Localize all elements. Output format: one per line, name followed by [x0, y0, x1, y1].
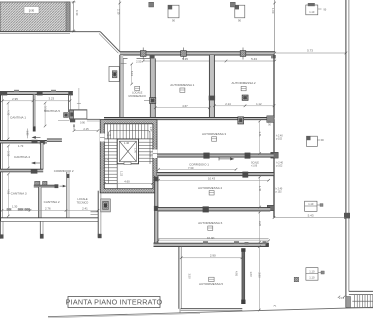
- svg-text:0.30: 0.30: [75, 10, 79, 16]
- svg-text:1.22: 1.22: [119, 171, 123, 177]
- svg-text:+1.06: +1.06: [251, 164, 258, 167]
- stair walk line: [109, 131, 151, 185]
- wall stubs below cantina block: [0, 221, 44, 238]
- tick where sloped line meets wall: [274, 305, 277, 308]
- svg-text:2.30: 2.30: [7, 151, 11, 157]
- svg-text:1.10: 1.10: [309, 269, 315, 273]
- dimension line 5.43 lower right: [274, 217, 346, 219]
- dimension line to right wall with 5.73: [275, 52, 346, 54]
- svg-text:2.14: 2.14: [225, 102, 231, 106]
- corner block right end of garages bottom wall: [267, 116, 274, 123]
- line closet to stair: [87, 118, 100, 120]
- svg-text:MONDEZZAIO: MONDEZZAIO: [129, 94, 146, 98]
- small filled square top x=149: [149, 2, 154, 7]
- svg-text:CANTINA 3: CANTINA 3: [11, 192, 27, 196]
- svg-text:10.43: 10.43: [208, 177, 215, 181]
- hatched wall block top-left: [0, 2, 70, 32]
- dim chain x=259.7: [259, 121, 261, 242]
- dim 2.95 / 3.23 under top wall: [2, 100, 70, 102]
- svg-text:AUTORIMESSA 3: AUTORIMESSA 3: [202, 132, 226, 136]
- inner right wall of building: [273, 55, 275, 218]
- corridor2 lower wall: [34, 184, 59, 188]
- room label LOCALE MONDEZZAIO: [129, 86, 146, 98]
- pilaster on mondezzaio wall: [144, 97, 156, 103]
- shaft symbol top A: [168, 5, 179, 22]
- svg-text:1.30: 1.30: [12, 205, 18, 209]
- room label AUTORIMESSA 2: [231, 81, 255, 91]
- pilaster with concentric squares below stair: [101, 199, 111, 212]
- diagonal wall: [100, 32, 120, 52]
- left vertical dims: [7, 103, 9, 139]
- aut5 left wall: [179, 247, 181, 313]
- svg-text:AUTORIMESSA 6: AUTORIMESSA 6: [198, 221, 222, 225]
- svg-text:1.80: 1.80: [26, 131, 29, 136]
- svg-text:1.00: 1.00: [134, 148, 138, 154]
- shaft symbol top B: [235, 5, 245, 22]
- svg-text:1.40: 1.40: [258, 186, 262, 192]
- wall C aut4/aut6: [158, 206, 270, 212]
- svg-text:1.00: 1.00: [249, 272, 253, 278]
- svg-text:2.10: 2.10: [116, 9, 120, 15]
- svg-text:CORRIDOIO 2: CORRIDOIO 2: [54, 169, 74, 173]
- cantina block top wall: [0, 90, 73, 96]
- dark blob below closet: [70, 119, 75, 122]
- svg-text:4.30: 4.30: [6, 110, 10, 116]
- right outer wall: [345, 0, 347, 308]
- svg-text:LOCALE: LOCALE: [77, 197, 88, 201]
- svg-text:CANTINA 5: CANTINA 5: [44, 109, 60, 113]
- small filled square top x=230: [230, 2, 235, 7]
- garage left wall vertical: [120, 55, 123, 120]
- corridor2 door piers: [35, 181, 40, 186]
- svg-text:10.00: 10.00: [207, 236, 215, 240]
- door pier top wall locale mondezzaio: [150, 55, 155, 59]
- vertical dim above closet: [78, 88, 80, 110]
- stair left flight treads: [104, 139, 117, 189]
- vent symbol right-mid 1: [307, 136, 325, 146]
- svg-text:3.20: 3.20: [258, 221, 262, 227]
- dim line bottom with marks: [2, 205, 98, 211]
- svg-text:1.25: 1.25: [149, 127, 153, 133]
- svg-text:7.30: 7.30: [188, 166, 194, 170]
- svg-text:1.10: 1.10: [308, 202, 314, 206]
- stair right flight treads: [139, 142, 153, 161]
- title box: [66, 297, 163, 308]
- elevator shaft: [117, 139, 138, 165]
- vent symbol top-right: [306, 3, 327, 15]
- svg-text:4.15: 4.15: [149, 152, 152, 157]
- main top wall of garages: [120, 52, 276, 59]
- svg-text:0.30: 0.30: [267, 121, 270, 126]
- svg-text:0.90: 0.90: [80, 121, 85, 124]
- svg-text:5.43: 5.43: [308, 213, 314, 217]
- cantina block bottom lines: [0, 217, 98, 219]
- wall line under hatched block: [0, 31, 100, 33]
- svg-text:2.15: 2.15: [83, 127, 89, 131]
- bottom right external stair: [339, 291, 373, 308]
- svg-text:5.73: 5.73: [307, 48, 313, 52]
- svg-text:5.35: 5.35: [182, 57, 188, 61]
- svg-text:p 102: p 102: [276, 190, 283, 193]
- svg-text:AUTORIMESSA 4: AUTORIMESSA 4: [198, 186, 222, 190]
- svg-text:p 102: p 102: [276, 164, 283, 167]
- wall cantina3/cantina2: [39, 187, 42, 218]
- vent symbol bottom-right: [306, 268, 324, 281]
- door pier right wall: [64, 113, 69, 118]
- garages bottom wall: [104, 118, 275, 120]
- svg-text:5.15: 5.15: [130, 71, 134, 77]
- boundary line from top edge at x=119.8: [119, 0, 121, 52]
- svg-text:1.40: 1.40: [124, 141, 130, 145]
- dim vertical line x=259.3: [258, 247, 260, 311]
- pilaster symbol left of garage wall: [109, 63, 127, 81]
- dim 10.43: [159, 179, 269, 181]
- dim 10.00: [158, 240, 269, 242]
- wall under cantina4: [0, 169, 43, 173]
- column marker on top wall x=243: [240, 48, 246, 60]
- door arrow corridor: [219, 157, 234, 160]
- svg-text:AUTORIMESSA 1: AUTORIMESSA 1: [170, 83, 194, 87]
- small hatched square bottom-right: [294, 277, 298, 281]
- wall cantina1/cantina5: [33, 95, 36, 132]
- svg-text:1.73: 1.73: [18, 144, 24, 148]
- aut5 bottom wall: [181, 309, 243, 311]
- svg-text:1.12: 1.12: [256, 102, 262, 106]
- svg-text:4.55: 4.55: [7, 189, 11, 195]
- room label AUTORIMESSA 4: [198, 186, 222, 195]
- arrow right of corridor2 wall: [60, 185, 66, 187]
- room label AUTORIMESSA 6: [198, 221, 222, 230]
- corridor wall B: [157, 172, 274, 178]
- garage wall between aut1 and aut2: [209, 55, 215, 120]
- svg-text:2.90: 2.90: [210, 254, 216, 258]
- wall left of stair going down: [98, 191, 102, 239]
- wall locale tecnico left: [66, 172, 69, 218]
- svg-text:4.60: 4.60: [124, 179, 130, 183]
- svg-text:1.00: 1.00: [271, 8, 275, 14]
- svg-text:4.67: 4.67: [182, 104, 188, 108]
- svg-text:2.50: 2.50: [136, 60, 142, 64]
- aut5 right thick wall: [241, 248, 245, 304]
- svg-text:p 102: p 102: [276, 137, 283, 140]
- svg-text:AUTORIMESSA 2: AUTORIMESSA 2: [231, 81, 255, 85]
- wall segment right of it: [47, 139, 62, 142]
- corridor wall A: [157, 153, 274, 159]
- vent symbol right-mid 2: [305, 201, 323, 211]
- column marker on top wall x=143: [140, 48, 146, 60]
- svg-text:TECNICO: TECNICO: [77, 200, 89, 204]
- svg-text:5.43: 5.43: [251, 57, 257, 61]
- room label AUTORIMESSA 5 with box: [199, 277, 223, 286]
- pilaster on right wall: [344, 213, 350, 219]
- dim 4.67 autorimessa1: [155, 107, 209, 109]
- small walls right of cantina block: [91, 211, 99, 213]
- stair upper flight treads: [104, 124, 153, 139]
- vertical dim x=45 with 3.10: [44, 103, 46, 126]
- column marker on top wall x=183.5: [181, 48, 187, 60]
- locale mondezzaio inner top wall line: [123, 57, 127, 59]
- svg-text:1.41: 1.41: [258, 132, 262, 138]
- dimension line right of hatched block: [72, 1, 76, 32]
- dim 2.14 1.12 autorimessa2: [214, 105, 274, 107]
- vertical dim inside mondezzaio: [131, 64, 133, 84]
- door arrow cantina1: [33, 136, 41, 138]
- pilaster inner wall at wall C: [267, 205, 274, 210]
- svg-text:1.10: 1.10: [309, 276, 315, 280]
- svg-text:1.10: 1.10: [309, 10, 315, 14]
- corridor right vertical wall going down: [154, 176, 159, 247]
- note text right of inner wall 2: [276, 162, 283, 168]
- wall cantina4 right: [41, 143, 44, 169]
- dim 7.30 corridor: [159, 168, 237, 170]
- svg-text:CANTINA 2: CANTINA 2: [44, 200, 60, 204]
- dim 2.90 top of aut5: [181, 257, 242, 259]
- arrow and dim below closet: [73, 124, 98, 131]
- note text right of inner wall 3: [276, 188, 283, 194]
- pilaster middle of autorimessa2: [242, 95, 248, 100]
- dimension line under top wall 5.35 / 5.43: [143, 60, 275, 62]
- boundary line from top edge at x=274.6: [274, 0, 276, 53]
- note text right of inner wall 1: [276, 135, 283, 141]
- svg-text:CANTINA 1: CANTINA 1: [10, 116, 26, 120]
- sloped boundary line bottom: [48, 307, 373, 316]
- hatched pilaster on garages bottom wall: [238, 117, 244, 124]
- svg-text:p.le: p.le: [29, 9, 35, 13]
- door arrow cantina4: [32, 162, 40, 164]
- svg-text:2.76: 2.76: [45, 206, 51, 210]
- svg-text:3.50: 3.50: [187, 274, 191, 280]
- pilaster inner wall at corridor A: [271, 152, 278, 158]
- vertical dim x=27.6: [27, 129, 29, 139]
- closet box next to stair: [70, 110, 87, 120]
- svg-text:3.23: 3.23: [48, 96, 54, 100]
- cantina block left wall: [1, 95, 3, 222]
- aut6 bottom thin line: [158, 238, 269, 240]
- aut6 bottom wall: [154, 241, 269, 247]
- svg-text:2.95: 2.95: [12, 97, 18, 101]
- svg-text:2.41: 2.41: [82, 206, 88, 210]
- svg-text:CANTINA 4: CANTINA 4: [14, 155, 30, 159]
- svg-text:PIANTA PIANO INTERRATO: PIANTA PIANO INTERRATO: [66, 298, 163, 307]
- svg-text:AUTORIMESSA 5: AUTORIMESSA 5: [199, 282, 223, 286]
- locale mondezzaio right wall: [150, 58, 155, 119]
- wall under cantina1: [0, 140, 47, 145]
- room label AUTORIMESSA 3: [202, 132, 226, 141]
- svg-text:4.95: 4.95: [235, 271, 239, 277]
- stairwell hatched ring: [100, 120, 157, 193]
- svg-text:2.90: 2.90: [257, 273, 261, 279]
- room label AUTORIMESSA 1: [170, 83, 194, 92]
- cantina right wall upper segment: [69, 95, 71, 112]
